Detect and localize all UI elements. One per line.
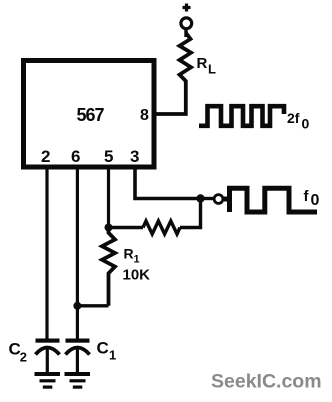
wire resistor to output node	[180, 199, 201, 228]
svg-text:1: 1	[109, 348, 116, 363]
wire junction to horizontal resistor	[109, 226, 144, 229]
horizontal feedback resistor	[143, 221, 180, 234]
ground under C1	[65, 372, 91, 376]
capacitor C2 top plate	[36, 339, 60, 343]
svg-text:10K: 10K	[123, 267, 151, 284]
svg-text:L: L	[208, 62, 216, 77]
wire pin 2 down to C2	[45, 165, 48, 339]
resistor RL zigzag	[180, 33, 192, 81]
wire circle to RL	[184, 30, 187, 37]
waveform 2f0 square wave	[199, 106, 284, 126]
svg-text:0: 0	[302, 116, 310, 132]
svg-text:C: C	[97, 339, 109, 358]
wire pin 6 down to C1	[76, 165, 79, 339]
ground under C2	[35, 372, 61, 376]
svg-text:2f: 2f	[287, 110, 300, 126]
svg-text:567: 567	[77, 105, 105, 125]
wire pin 5 down	[107, 165, 110, 228]
resistor R1 zigzag	[102, 228, 115, 306]
svg-text:2: 2	[41, 147, 50, 166]
svg-text:f: f	[304, 188, 310, 205]
svg-text:3: 3	[130, 147, 139, 166]
node junction pin5/R1	[105, 224, 113, 232]
svg-text:5: 5	[104, 147, 113, 166]
waveform f0 square wave	[224, 188, 317, 212]
svg-text:SeekIC.com: SeekIC.com	[211, 371, 322, 393]
wire pin 3 down and right	[135, 165, 201, 199]
wire R1 bottom to pin6 line	[77, 304, 108, 307]
IC U1 567 tone decoder box	[24, 61, 155, 168]
svg-text:2: 2	[20, 350, 27, 365]
wire RL to pin 8	[156, 80, 186, 114]
svg-text:R: R	[197, 55, 208, 72]
capacitor C1 top plate	[66, 339, 90, 343]
svg-text:R: R	[124, 246, 134, 262]
svg-text:8: 8	[140, 107, 149, 124]
wire C1 to ground	[76, 349, 79, 372]
node junction R1/pin6	[73, 302, 81, 310]
supply open terminal circle	[181, 18, 192, 29]
wire C2 to ground	[46, 349, 49, 372]
node junction output	[196, 194, 204, 202]
svg-text:0: 0	[311, 192, 320, 209]
wire node to output terminal	[201, 197, 214, 200]
output open terminal circle	[214, 195, 223, 204]
capacitor C2 curved plate	[36, 348, 60, 355]
svg-text:6: 6	[71, 147, 80, 166]
capacitor C1 curved plate	[66, 348, 90, 355]
+ supply terminal mark	[183, 4, 191, 12]
svg-text:1: 1	[134, 254, 140, 266]
